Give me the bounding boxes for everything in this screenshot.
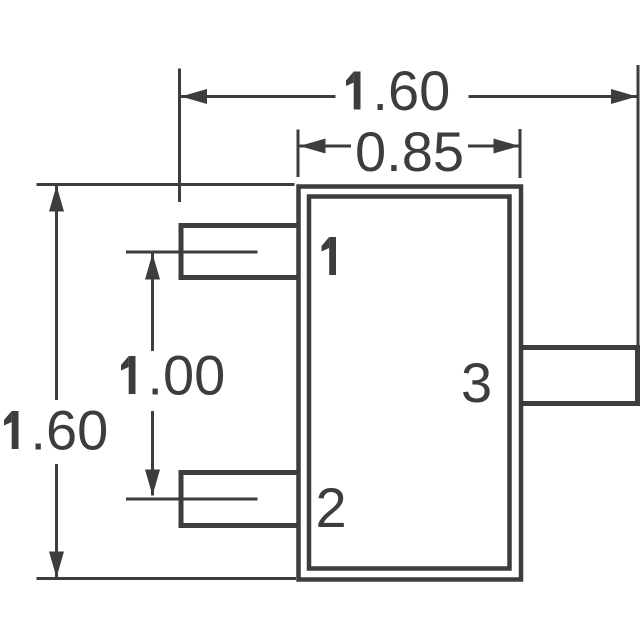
extension line left of top 1.60 dimension [178, 69, 181, 203]
dimension text 0.85 [355, 120, 464, 183]
arrowhead down of left 1.60 [49, 552, 64, 578]
extension line left of 0.85 dimension [297, 130, 300, 178]
pin 3 (right lead) [520, 348, 638, 404]
svg-text:3: 3 [461, 351, 492, 414]
extension line bottom of left 1.60 dimension [37, 577, 297, 580]
svg-text:.60: .60 [30, 399, 108, 462]
extension line bottom of 1.00 dimension [126, 498, 258, 501]
dimension line 0.85 right segment [468, 145, 519, 148]
extension line top of left 1.60 dimension [37, 183, 295, 186]
dimension line top 1.60 right segment [469, 95, 638, 98]
dimension text 1.60 top [346, 59, 450, 122]
pin number 1 [322, 237, 337, 275]
extension line top of 1.00 dimension [126, 251, 258, 254]
svg-text:2: 2 [316, 476, 347, 539]
pin 1 (top-left lead) [181, 226, 300, 278]
extension line right of top 1.60 dimension [637, 65, 640, 345]
arrowhead up of left 1.60 [49, 186, 64, 212]
arrowhead right of 0.85 [494, 139, 520, 154]
dimension line 1.00 lower segment [151, 411, 154, 496]
extension line right of 0.85 dimension [519, 129, 522, 178]
dimension line 0.85 left segment [300, 145, 352, 148]
dimension line 1.00 upper segment [151, 254, 154, 352]
arrowhead down of 1.00 [145, 470, 160, 496]
pin number 2 [316, 476, 347, 539]
dimension line left 1.60 upper segment [55, 186, 58, 400]
dimension text 1.00 [121, 344, 225, 407]
arrowhead right of top 1.60 [611, 89, 637, 104]
dimension text 1.60 left [4, 399, 108, 462]
dimension line top 1.60 left segment [181, 95, 336, 98]
arrowhead left of top 1.60 [181, 89, 207, 104]
arrowhead left of 0.85 [300, 139, 326, 154]
arrowhead up of 1.00 [145, 254, 160, 280]
svg-text:.00: .00 [147, 344, 225, 407]
dimension line left 1.60 lower segment [55, 464, 58, 577]
pin number 3 [461, 351, 492, 414]
pin 2 (bottom-left lead) [181, 473, 300, 526]
svg-text:.60: .60 [372, 59, 450, 122]
svg-text:0.85: 0.85 [355, 120, 464, 183]
package body inner outline [309, 197, 510, 569]
package body outer outline [299, 187, 522, 580]
